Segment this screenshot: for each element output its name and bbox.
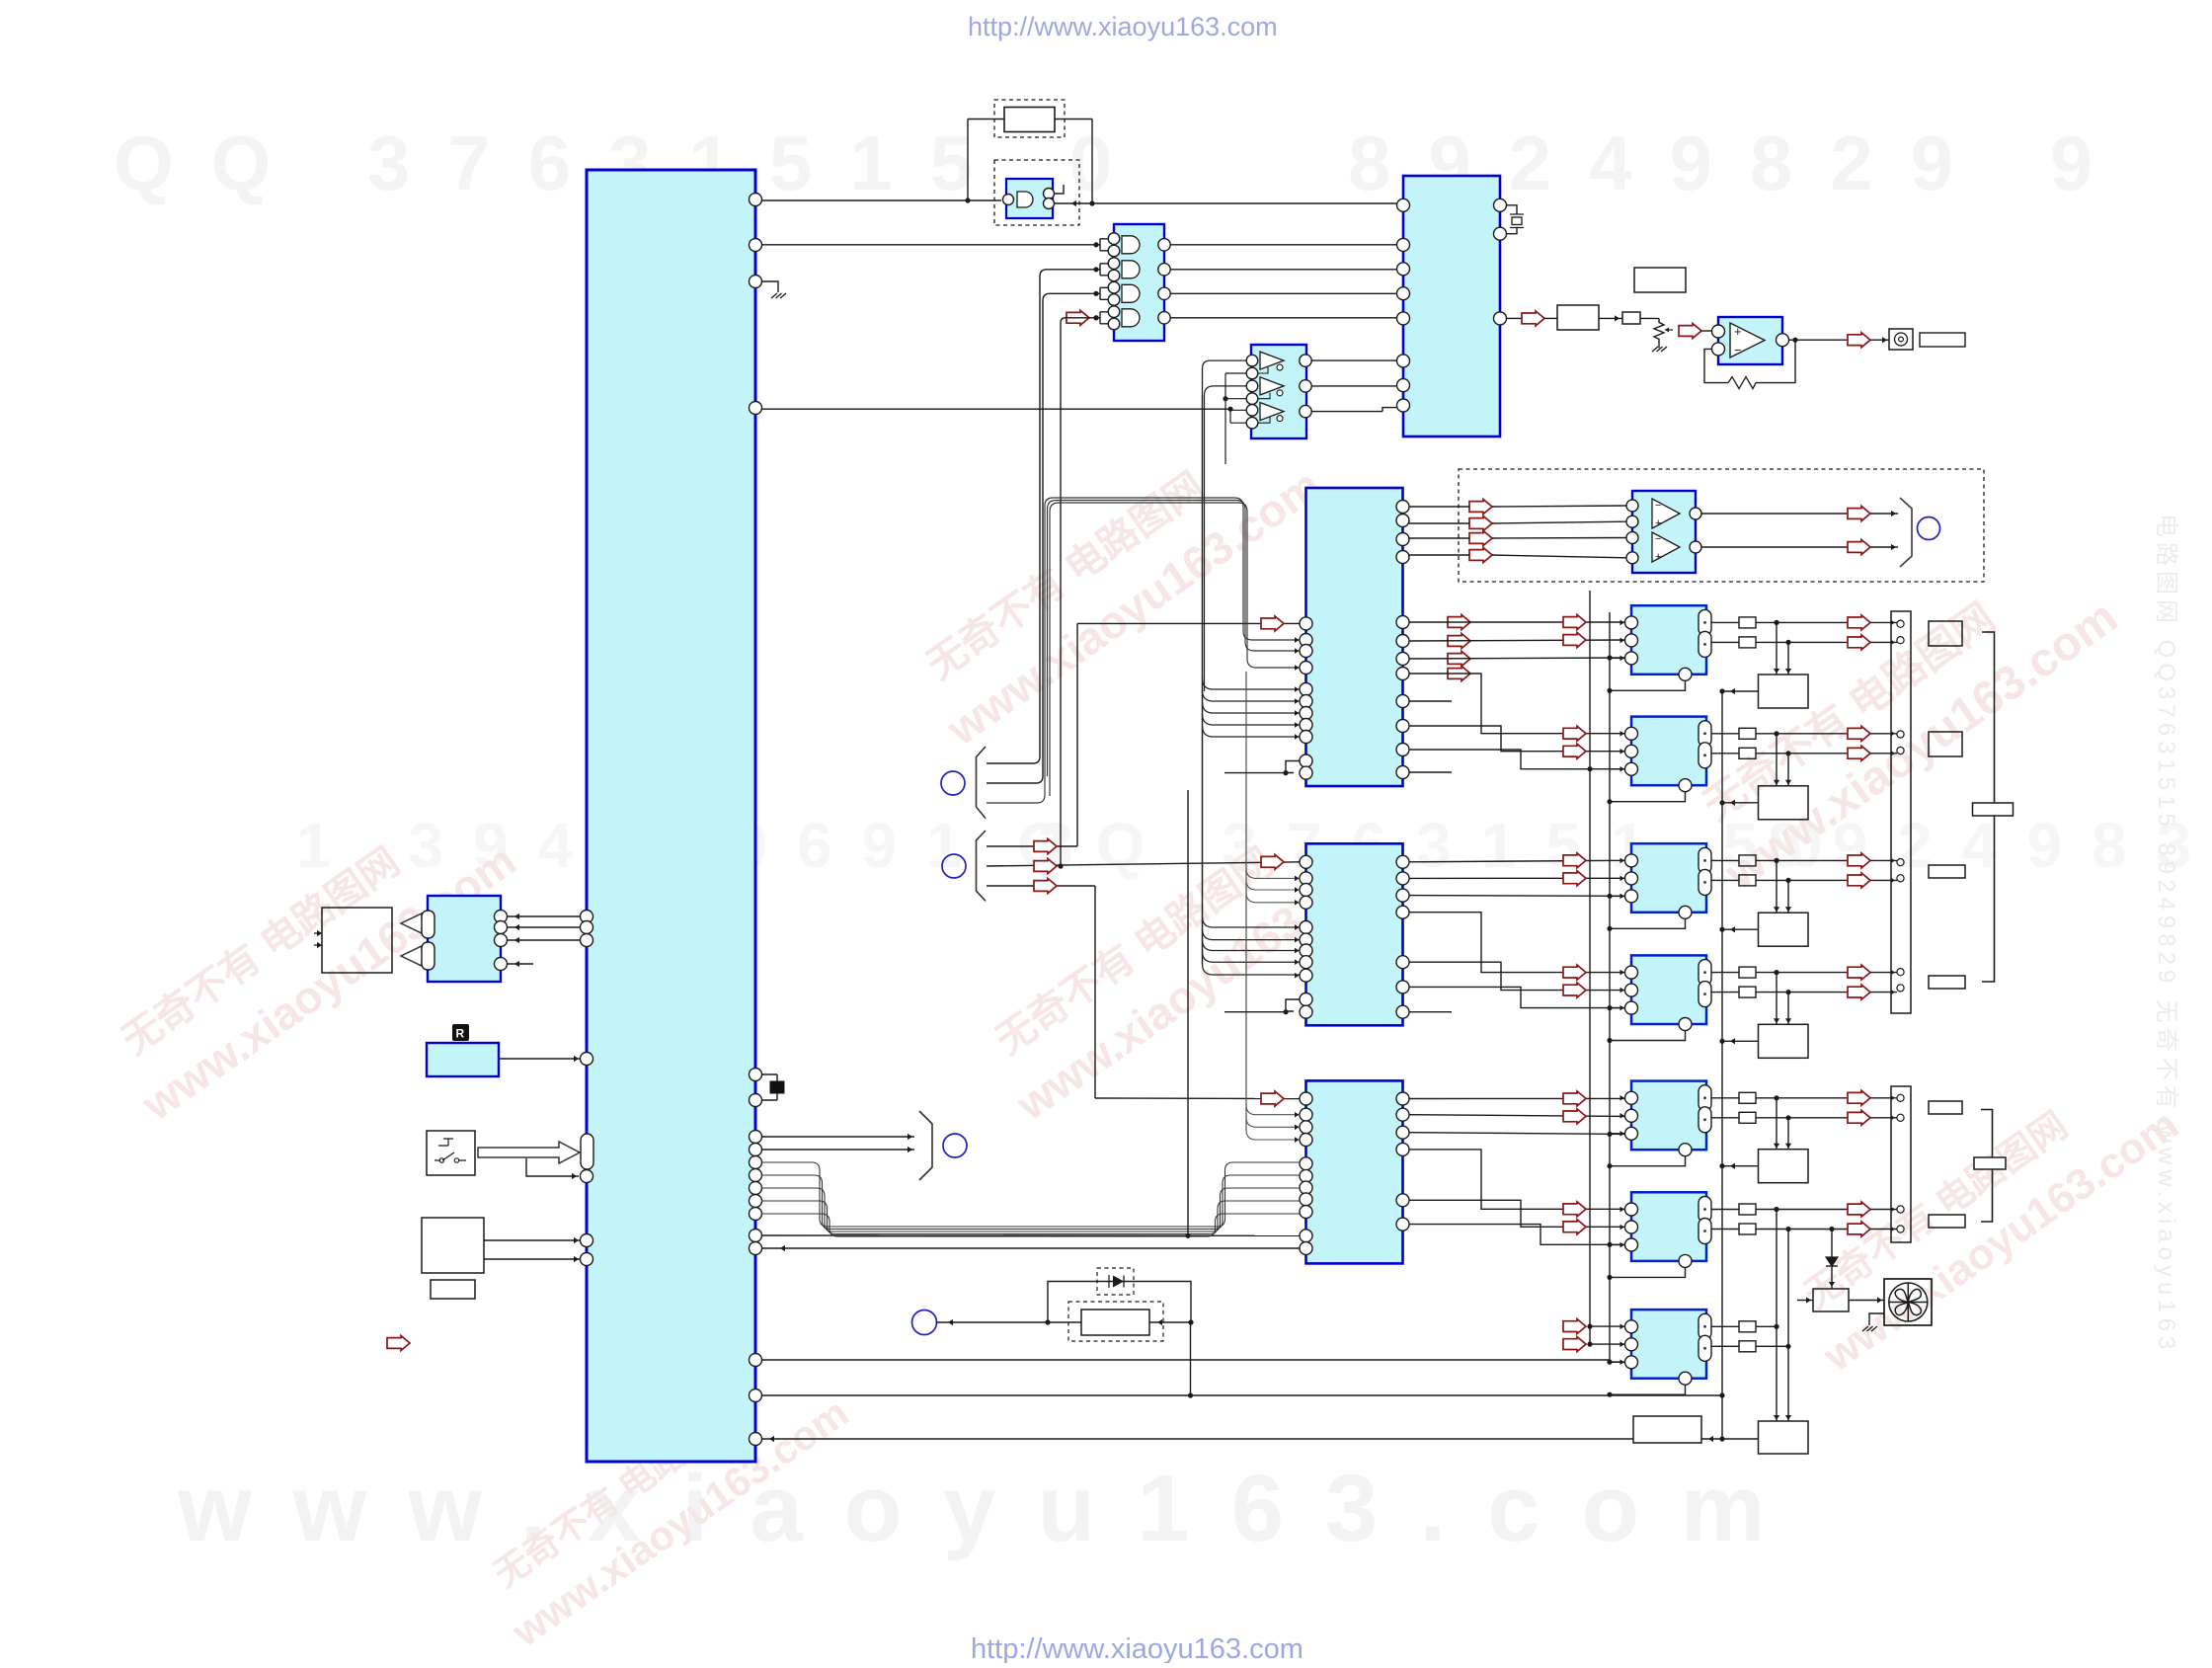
AND gate at y321 <box>1122 309 1140 327</box>
U2a output pin 2 <box>1044 199 1055 209</box>
red arrow <box>1563 615 1586 630</box>
red arrow output a <box>1848 1090 1870 1105</box>
svg-text:−: − <box>1734 343 1742 357</box>
red arrow <box>1563 1220 1586 1234</box>
D2 output line a <box>1756 733 1848 735</box>
wire crystal loop <box>761 1074 777 1100</box>
D7 output line a <box>1756 1325 1777 1327</box>
red arrow <box>1563 1091 1586 1106</box>
wire brace B line3 <box>987 885 1095 887</box>
faint rotated pink watermark stamps <box>98 785 525 1131</box>
T3 primary risers <box>1776 860 1777 913</box>
wire U1 y1377 to D7 in3 <box>761 1360 1625 1362</box>
IC D1 output driver block <box>1631 605 1706 675</box>
red arrow <box>1563 1337 1586 1352</box>
red arrow output b <box>1848 635 1870 650</box>
D4 input arrowheads <box>1620 970 1625 976</box>
AC label box <box>431 1280 475 1299</box>
D3 input pins <box>1625 854 1638 867</box>
red arrow to op-amp <box>1679 324 1701 339</box>
wire resistor left lead <box>968 119 1004 120</box>
U3 pin left y390 <box>1397 379 1410 392</box>
gate input pins <box>1108 306 1120 318</box>
U9 pin left <box>1300 1134 1312 1147</box>
label box speaker D <box>1929 976 1965 989</box>
U1 key-input pill pin (y1148-1183) <box>581 1134 593 1169</box>
buffer gate at y416 <box>1260 403 1284 421</box>
transformer T6 bottom box <box>1759 1421 1809 1454</box>
wire into U8 hook <box>1224 1011 1286 1013</box>
IC D3 output driver block <box>1631 843 1706 913</box>
red arrow <box>1563 983 1586 997</box>
D3 fuse F3b <box>1739 875 1756 886</box>
wire stub into regulator <box>1797 1300 1813 1302</box>
crystal X1 at U1 <box>770 1081 784 1093</box>
IC U2 AND-gate array block <box>1114 224 1164 341</box>
wire U4 in1 feeder (top of data bus line) <box>1203 360 1247 395</box>
wire U4 out1 to U3 <box>1311 359 1396 361</box>
U7 pin left <box>1300 645 1312 658</box>
U4 input pin <box>1246 355 1258 366</box>
D2 fuse F2a <box>1739 728 1756 739</box>
vertical bus x1630 <box>1609 612 1611 1362</box>
data bus main vertical x1217 (to U7/U8 inputs) <box>1202 395 1204 964</box>
wire gate1 output to U3 <box>1170 244 1396 246</box>
U9 pin left <box>1300 1108 1312 1121</box>
D7 bottom pin <box>1679 1372 1692 1385</box>
transformer T4 <box>1759 1024 1809 1058</box>
T2 bus feed <box>1722 802 1759 804</box>
fan ground wire <box>1869 1313 1884 1325</box>
brace C (keyboard bus marker) <box>919 1111 932 1180</box>
bypass loop wires <box>1048 1282 1191 1323</box>
D3 output pill pins <box>1698 847 1711 873</box>
label box speaker A <box>1929 621 1962 646</box>
L1 right pins <box>495 911 508 923</box>
AND gate U2a symbol <box>1017 192 1033 207</box>
wire into U7 hook <box>1224 772 1286 774</box>
U4 output pin <box>1300 355 1311 366</box>
diode D-fan <box>1831 1230 1833 1258</box>
red arrow U7 input <box>1261 616 1284 631</box>
CN2 pin <box>1897 1094 1904 1101</box>
wire to delay box <box>1544 317 1557 319</box>
red arrow <box>1563 1202 1586 1217</box>
wire U1 y1251 to U9 <box>761 1234 1300 1236</box>
U9 pin right <box>1396 1194 1409 1207</box>
hollow arrow to display lower <box>401 946 435 966</box>
U7 pin left <box>1300 719 1312 732</box>
U7 pin left <box>1300 731 1312 744</box>
wire to jack <box>1870 339 1889 341</box>
U8 pin left <box>1300 956 1312 969</box>
U2a output pin <box>1044 189 1055 199</box>
U4 input pin <box>1246 393 1258 405</box>
wire U8 out y906 to D3 in3 <box>1409 895 1626 898</box>
D6 input arrowheads <box>1620 1207 1625 1213</box>
D7 input arrowheads <box>1620 1323 1625 1329</box>
wire y631 to U7 input <box>1077 622 1300 624</box>
gate input pins <box>1108 233 1120 245</box>
U4 input pin <box>1246 417 1258 429</box>
wires L1 to U1 <box>507 915 581 917</box>
AND gate at y272 <box>1122 261 1140 278</box>
U3 pin right y236 <box>1494 227 1507 240</box>
U7 pin left <box>1300 683 1312 696</box>
IC U3 signal processor block <box>1403 176 1500 437</box>
red arrow <box>1563 744 1586 758</box>
U6 input pin <box>1626 552 1638 564</box>
U7 pin right <box>1396 766 1409 779</box>
U9 pin left <box>1300 1092 1312 1105</box>
wire U1 y1413 rail <box>761 1394 1722 1396</box>
U3 pin left y365 <box>1397 355 1410 367</box>
red arrow headphone input <box>1469 548 1492 563</box>
U7 pin left <box>1300 755 1312 767</box>
address bus grey vertical x1262 (to U8/U9 in2-4) <box>1245 672 1247 1130</box>
D1 output line a <box>1756 621 1848 623</box>
brace B (bus group marker) <box>977 831 987 901</box>
U6 input pin <box>1626 516 1638 527</box>
L1 pill pins <box>422 911 434 938</box>
D1 input arrowheads <box>1620 620 1625 626</box>
wire bus to D7 in2 <box>1590 1343 1625 1345</box>
D3 in3 bus stub <box>1610 895 1625 897</box>
wire to connector <box>1870 859 1897 861</box>
U1 pin (y1264) <box>750 1242 762 1255</box>
D1 output line b <box>1756 641 1848 643</box>
D1 input pins <box>1625 616 1638 629</box>
U3 pin right y322 <box>1494 312 1507 325</box>
L1 pin4 stub <box>507 963 533 965</box>
IC D6 output driver block <box>1631 1192 1706 1261</box>
U7 pin right <box>1396 744 1409 756</box>
wire U7 out y759 to D2 in3 <box>1409 750 1626 769</box>
red arrow line-out <box>1848 333 1870 348</box>
branch curves from address bus into U8 in2-4 <box>1246 868 1301 878</box>
U7 pin left <box>1300 766 1312 779</box>
U8 pin right <box>1396 872 1409 885</box>
D1 fuse F1a <box>1739 617 1756 628</box>
feeder routes brace-A up-across-down to U7 in2-4 (address bus) <box>987 498 1301 803</box>
wire vertical to reset resistor left <box>967 119 969 201</box>
U9 pin right <box>1396 1126 1409 1139</box>
IC U4 inverter/buffer block <box>1251 345 1306 438</box>
T3 bus feed <box>1722 928 1759 930</box>
svg-text:+: + <box>1734 324 1742 339</box>
U7 pin right <box>1396 551 1409 564</box>
U8 pin right <box>1396 1005 1409 1018</box>
gate input bracket wire <box>1096 239 1108 251</box>
D6 output line a <box>1756 1209 1848 1211</box>
U1 crystal pin (y1088) <box>750 1069 762 1081</box>
U1 pin (serial out, y203) <box>750 194 762 206</box>
U6 output pin b <box>1690 541 1701 553</box>
wire U1 pin1164 to brace C <box>761 1149 914 1151</box>
U7 pin right <box>1396 635 1409 648</box>
U1 crystal pin (y1114) <box>750 1094 762 1107</box>
svg-text:http://www.xiaoyu163.com: http://www.xiaoyu163.com <box>968 12 1278 41</box>
headphone jack bracket <box>1900 498 1912 567</box>
U1 pin (y1457) <box>750 1433 762 1446</box>
U1 pin (y1413) <box>750 1390 762 1402</box>
U8 pin left <box>1300 1005 1312 1018</box>
T1 bus feed <box>1722 690 1759 692</box>
D7 fuse F7b <box>1739 1341 1756 1352</box>
D7 output wires to fuses <box>1711 1325 1739 1327</box>
U7 pin right <box>1396 616 1409 629</box>
display module box <box>322 908 392 973</box>
D3 input arrowheads <box>1620 858 1625 864</box>
U1 pin left (y1191) <box>581 1170 593 1183</box>
display input arrows <box>314 933 322 945</box>
wire L2 to U1 <box>499 1058 581 1060</box>
D3 fuse F3a <box>1739 855 1756 866</box>
AND gate at y247 <box>1122 236 1140 254</box>
switch symbol <box>434 1139 466 1160</box>
wire U8 out y923 to D4 in1 <box>1409 913 1626 973</box>
D4 bottom pin <box>1679 1018 1692 1031</box>
CN1 pin <box>1897 731 1904 738</box>
U7 pin left <box>1300 634 1312 647</box>
D5 fuse F5a <box>1739 1092 1756 1103</box>
D7 output pill pins <box>1698 1313 1711 1339</box>
fan regulator box <box>1813 1289 1849 1311</box>
U3 pin left y247 <box>1397 238 1410 251</box>
U4 output pin <box>1300 405 1311 417</box>
D7 fuse F7a <box>1739 1321 1756 1332</box>
branch curves from address bus into U9 in2-3 <box>1246 1105 1301 1115</box>
gate input bracket wire <box>1096 287 1108 299</box>
IC D5 output driver block <box>1631 1081 1706 1151</box>
D2 bottom pin wire <box>1610 792 1686 802</box>
wire U8 out y974 to D4 in2 <box>1409 962 1626 990</box>
U8 pin left <box>1300 855 1312 868</box>
wire U8 out y999 to D4 in3 <box>1409 987 1626 1007</box>
U3 pin left y322 <box>1397 312 1410 325</box>
ground symbol at U1 <box>771 293 786 298</box>
red arrow output b <box>1848 1110 1870 1125</box>
U6 input pin <box>1626 500 1638 512</box>
wire U4 out2 to U3 <box>1311 385 1396 387</box>
red arrow into gate4 line <box>1066 310 1089 325</box>
dashed box around reset AND gate <box>994 160 1079 225</box>
U1 pin (y1251) <box>750 1230 762 1242</box>
D3 output line b <box>1756 879 1848 881</box>
D2 output wires to fuses <box>1711 733 1739 735</box>
AND gate at y297 <box>1122 284 1140 302</box>
wire U4 out3 to U3 <box>1311 411 1382 413</box>
red arrow <box>1563 1319 1586 1334</box>
U1 pin left (y939) <box>581 921 593 934</box>
D2 bottom pin <box>1679 779 1692 792</box>
D6 output pill pins <box>1698 1197 1711 1223</box>
U4 input pin <box>1246 380 1258 392</box>
gate output pin <box>1158 312 1170 324</box>
wire U9 out y1112 to D5 in1 <box>1409 1097 1626 1099</box>
U9 pin right <box>1396 1143 1409 1155</box>
label bar CN1 <box>1973 803 2014 816</box>
CN1 pin <box>1897 620 1904 627</box>
U1 pin (ground pin y285) <box>750 276 762 288</box>
D5 input arrowheads <box>1620 1095 1625 1101</box>
node circle C <box>943 1134 967 1157</box>
wire headphone out L <box>1701 513 1848 515</box>
wire U9 out y1163 to D6 in1 <box>1409 1150 1626 1209</box>
red arrow <box>1563 726 1586 741</box>
U9 pin left <box>1300 1181 1312 1194</box>
wire to op-amp + input <box>1701 330 1711 332</box>
wire to level pot <box>1640 317 1659 319</box>
D4 fuse F4b <box>1739 987 1756 997</box>
wire U9 out y1146 to D5 in3 <box>1409 1133 1626 1135</box>
svg-text:电路图网 QQ37631515 89249829 无奇不有: 电路图网 QQ37631515 89249829 无奇不有 www.xiaoyu… <box>2153 514 2179 1354</box>
red arrow output b <box>1848 985 1870 999</box>
U5 output pin <box>1777 334 1789 347</box>
svg-text:−: − <box>1655 500 1661 512</box>
buffer gate at y390 <box>1260 377 1284 395</box>
D1 bottom pin wire <box>1610 680 1686 690</box>
D2 input arrowheads <box>1620 731 1625 737</box>
svg-text:+: + <box>1655 551 1661 563</box>
vertical bus x1744 (power rail) <box>1721 691 1723 1439</box>
wire regulator to fan <box>1849 1300 1884 1302</box>
label box upper <box>1634 268 1686 292</box>
U1 pin left (y1275) <box>581 1253 593 1266</box>
wire vertical resistor right to main line <box>1091 119 1093 202</box>
U7 pin left <box>1300 617 1312 630</box>
wire U4 enable stubs <box>1258 367 1270 423</box>
red arrow brace B2 <box>1034 859 1057 874</box>
U9 pin left <box>1300 1121 1312 1134</box>
IC L1 display connector block <box>428 896 501 982</box>
red arrow <box>1563 853 1586 868</box>
T4 primary risers <box>1776 973 1777 1025</box>
wire <box>1870 513 1898 515</box>
U3 pin right y207 <box>1494 199 1507 211</box>
data bus end curve into U8 in9 <box>1203 964 1301 975</box>
D4 input pins <box>1625 966 1638 979</box>
hollow arrow switch to U1 <box>478 1142 580 1163</box>
bracket CN1 group <box>1982 632 1995 982</box>
block delay/filter box <box>1557 305 1599 330</box>
power resistor R-std <box>1081 1310 1149 1335</box>
U6 output pin a <box>1690 508 1701 519</box>
red arrow brace B3 <box>1034 879 1057 894</box>
wire U5 output <box>1788 339 1848 341</box>
relay box K1 bottom <box>1633 1416 1701 1443</box>
U7 pin right <box>1396 515 1409 527</box>
wire U1 y413 bus to U4 in5/in6 <box>761 408 1230 410</box>
T5 bus feed <box>1722 1165 1759 1167</box>
node circle B <box>942 854 966 878</box>
D5 bottom pin <box>1679 1144 1692 1156</box>
D2 output line b <box>1756 753 1848 755</box>
wire gate4 output to U3 <box>1170 317 1396 319</box>
D6 output line b <box>1756 1229 1848 1231</box>
U7 pin right <box>1396 695 1409 708</box>
pot wiper arrow <box>1665 329 1673 331</box>
D4 output line b <box>1756 992 1848 993</box>
U8 pin left <box>1300 993 1312 1006</box>
svg-text:R: R <box>456 1027 465 1041</box>
U4 output pin <box>1300 380 1311 392</box>
D3 bottom pin <box>1679 906 1692 918</box>
T5 primary risers <box>1776 1098 1777 1150</box>
CN1 pin <box>1897 985 1904 992</box>
U9 pin right <box>1396 1108 1409 1121</box>
D5 in3 bus stub <box>1610 1133 1625 1135</box>
wire to connector <box>1870 621 1897 623</box>
power switch box SW1 <box>427 1131 475 1175</box>
vertical from loop to rail y1413 <box>1190 1322 1192 1395</box>
CN2 pin <box>1897 1226 1904 1232</box>
U7 pin right <box>1396 533 1409 546</box>
red arrow headphone input <box>1469 500 1492 515</box>
wire U4 in2/in4 tie bracket <box>1225 373 1246 464</box>
transformer T2 <box>1759 786 1809 820</box>
long verticals D6/D7 outputs to T6 box <box>1776 1210 1777 1422</box>
wire K1 to T6 <box>1701 1438 1759 1440</box>
label bar CN2 <box>1974 1157 2006 1169</box>
dashed box headphone amplifier section <box>1459 469 1984 582</box>
red arrow output a <box>1848 726 1870 741</box>
wire to connector <box>1870 1097 1897 1099</box>
wire U7 out y649 to D1 in2 <box>1409 640 1626 641</box>
crystal circuit at U3 <box>1506 205 1517 234</box>
red arrow headphone input <box>1469 516 1492 531</box>
red arrow U8 input <box>1261 854 1284 869</box>
CN1 pin <box>1897 747 1904 754</box>
buffer gate at y365 <box>1260 352 1284 369</box>
riser x1109 down to y1111 <box>1094 886 1096 1098</box>
wire switch arrow tap to pin <box>526 1158 579 1176</box>
wire U1 y1264 to U9 <box>761 1247 1300 1249</box>
wire U1 y248 to gate1 <box>761 244 1096 246</box>
D7 in3 bus stub <box>1610 1361 1625 1363</box>
red arrow brace B1 <box>1034 839 1057 854</box>
wire diode to fan regulator <box>1831 1266 1833 1289</box>
D5 bottom pin wire <box>1610 1156 1686 1166</box>
D6 fuse F6b <box>1739 1224 1756 1234</box>
svg-text:+: + <box>1655 517 1661 529</box>
wires AC box to U1 <box>484 1239 581 1241</box>
U9 pin left <box>1300 1157 1312 1170</box>
wire to connector <box>1870 733 1897 735</box>
U8 pin right <box>1396 889 1409 902</box>
U7 pin right <box>1396 653 1409 666</box>
U8 pin left <box>1300 921 1312 934</box>
wire U7 out y682 to D2 in1 <box>1409 674 1626 734</box>
op-amp U6a triangle <box>1652 499 1680 528</box>
D1 in3 bus stub <box>1610 657 1625 659</box>
U9 pin right <box>1396 1218 1409 1231</box>
label box speaker B <box>1929 732 1962 756</box>
remote sensor icon R <box>452 1024 469 1041</box>
hollow arrow to display upper <box>401 913 435 933</box>
label box speaker E <box>1929 1101 1962 1114</box>
wires U7 top outputs (to headphone amp inputs) <box>1408 506 1411 508</box>
U8 pin right <box>1396 855 1409 868</box>
D3 bottom pin wire <box>1610 918 1686 928</box>
D1 fuse F1b <box>1739 637 1756 648</box>
wire U1 ground stub <box>761 281 778 292</box>
gate input bracket wire <box>1096 312 1108 324</box>
IC U1 system-control microprocessor (large block) <box>587 170 755 1462</box>
gate output pin <box>1158 287 1170 299</box>
gate output pin <box>1158 239 1170 251</box>
U1 pin left (y952) <box>581 934 593 947</box>
